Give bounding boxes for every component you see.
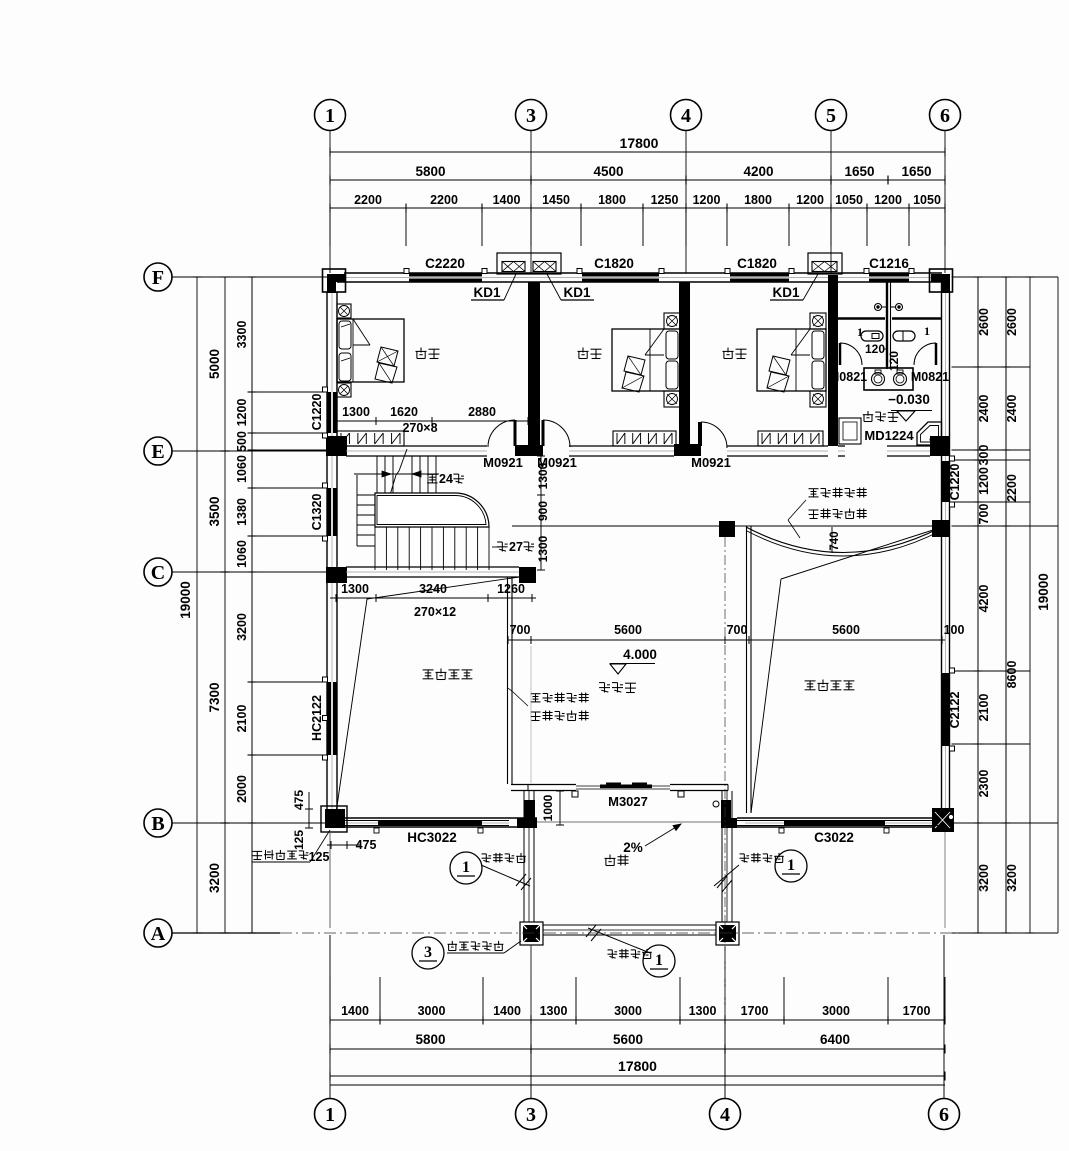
KD1 box left bbox=[497, 253, 561, 274]
room label bedroom 1 bbox=[420, 348, 422, 353]
void diagonal living bbox=[751, 530, 933, 813]
dim 475 horizontal bbox=[327, 844, 360, 846]
svg-text:6: 6 bbox=[939, 1104, 949, 1126]
bed 2 bbox=[612, 329, 680, 391]
svg-text:2200: 2200 bbox=[430, 193, 458, 207]
grid circle 3 bottom bbox=[516, 1099, 547, 1130]
svg-text:C1820: C1820 bbox=[594, 256, 634, 271]
dim stairs 1300/900/1300 bbox=[540, 456, 542, 570]
svg-text:475: 475 bbox=[356, 838, 377, 852]
bed 1 cushion b bbox=[375, 363, 397, 383]
label corner column bbox=[253, 850, 263, 852]
room label bedroom 2 bbox=[582, 348, 584, 353]
void slab edge line bbox=[512, 525, 941, 527]
svg-text:4200: 4200 bbox=[977, 585, 991, 613]
svg-text:1: 1 bbox=[325, 105, 335, 127]
svg-text:1650: 1650 bbox=[844, 164, 874, 179]
right wall outer line bbox=[949, 292, 951, 808]
label living void bbox=[805, 680, 816, 682]
svg-text:2880: 2880 bbox=[468, 405, 496, 419]
label dining void bbox=[423, 669, 434, 671]
door MD1224 bbox=[839, 418, 861, 444]
B wall center line bbox=[345, 822, 509, 824]
svg-text:3: 3 bbox=[526, 105, 536, 127]
svg-text:3200: 3200 bbox=[207, 863, 222, 893]
callout 1 left bbox=[450, 852, 482, 884]
svg-text:8600: 8600 bbox=[1005, 661, 1019, 689]
grid circle 1 top bbox=[315, 100, 346, 131]
svg-text:C1220: C1220 bbox=[310, 394, 324, 431]
window C1820 bed2 bbox=[582, 274, 659, 277]
dim 1000 balcony bbox=[559, 791, 561, 825]
svg-text:27: 27 bbox=[509, 540, 523, 554]
svg-text:17800: 17800 bbox=[620, 135, 659, 151]
right tick line bbox=[952, 501, 1031, 503]
railing note right bbox=[809, 488, 819, 490]
dim 740 bbox=[831, 527, 833, 553]
E wall segment bath right bbox=[887, 445, 930, 447]
svg-text:4: 4 bbox=[720, 1104, 730, 1126]
window C3022 bbox=[737, 820, 941, 822]
grid line 3 stem lower bbox=[530, 945, 532, 1015]
dim 475 vertical bbox=[308, 792, 310, 828]
column fill E left of door3 bbox=[674, 444, 701, 456]
right wall inner line bbox=[941, 282, 943, 818]
svg-text:C3022: C3022 bbox=[814, 830, 854, 845]
bottom dim row 5800/5600/6400 bbox=[330, 1048, 945, 1050]
grid circle 6 bottom bbox=[929, 1099, 960, 1130]
svg-text:1800: 1800 bbox=[598, 193, 626, 207]
svg-text:1700: 1700 bbox=[903, 1004, 931, 1018]
svg-text:1380: 1380 bbox=[235, 498, 249, 526]
grid circle E bbox=[144, 437, 172, 465]
svg-text:C: C bbox=[151, 562, 165, 584]
svg-text:4.000: 4.000 bbox=[623, 647, 657, 662]
grid circle 1 bottom bbox=[315, 1099, 346, 1130]
KD1 box right bbox=[808, 253, 842, 274]
door M0921 bed3 bbox=[698, 422, 702, 446]
svg-text:3000: 3000 bbox=[614, 1004, 642, 1018]
svg-text:1050: 1050 bbox=[913, 193, 941, 207]
right tick line bbox=[952, 449, 1031, 451]
top wall center line bbox=[346, 277, 940, 279]
top wall inner line bbox=[337, 281, 942, 283]
void diagonal dining bbox=[336, 577, 519, 813]
callout 1 right bbox=[775, 850, 807, 882]
wardrobe bed1 bbox=[337, 431, 404, 446]
svg-text:C1220: C1220 bbox=[948, 464, 962, 501]
svg-text:1: 1 bbox=[857, 325, 863, 339]
void railing dining bbox=[507, 577, 509, 784]
svg-text:3: 3 bbox=[526, 1104, 536, 1126]
grid circle B bbox=[144, 809, 172, 837]
B wall outer line bbox=[327, 826, 537, 828]
svg-text:2400: 2400 bbox=[977, 395, 991, 423]
svg-text:500: 500 bbox=[235, 431, 249, 452]
svg-text:1200: 1200 bbox=[796, 193, 824, 207]
B wall inner line bbox=[327, 817, 537, 819]
svg-text:C1216: C1216 bbox=[869, 256, 909, 271]
right tick line bbox=[952, 366, 1031, 368]
svg-text:C2122: C2122 bbox=[948, 692, 962, 729]
window C2122 right bbox=[942, 673, 946, 746]
window HC3022 bbox=[345, 820, 509, 822]
svg-text:F: F bbox=[152, 267, 164, 289]
window C1320 left bbox=[328, 488, 332, 536]
stair lower flight treads bbox=[374, 527, 376, 570]
svg-text:1620: 1620 bbox=[390, 405, 418, 419]
basin left bbox=[872, 373, 885, 386]
svg-text:1: 1 bbox=[787, 857, 795, 874]
railing note middle bbox=[531, 693, 541, 695]
corner column B-right decorative bbox=[932, 808, 954, 832]
bottom dim 17800 bbox=[330, 1075, 945, 1077]
bath hook right bbox=[896, 304, 903, 311]
column curve-left bbox=[719, 521, 735, 537]
bed 1 bbox=[337, 319, 404, 382]
column fill C-left bbox=[326, 567, 347, 583]
svg-text:1400: 1400 bbox=[493, 1004, 521, 1018]
room label bedroom 3 bbox=[727, 348, 729, 353]
svg-text:3000: 3000 bbox=[418, 1004, 446, 1018]
svg-text:MD1224: MD1224 bbox=[864, 428, 914, 443]
door M0821 left bbox=[840, 343, 862, 365]
svg-text:B: B bbox=[151, 813, 164, 835]
svg-text:475: 475 bbox=[292, 790, 306, 810]
svg-text:1200: 1200 bbox=[977, 467, 991, 495]
svg-text:1400: 1400 bbox=[493, 193, 521, 207]
svg-text:3200: 3200 bbox=[235, 613, 249, 641]
svg-text:125: 125 bbox=[292, 830, 306, 850]
svg-text:3200: 3200 bbox=[1005, 864, 1019, 892]
svg-text:5: 5 bbox=[826, 105, 836, 127]
column balcony junction left bbox=[517, 818, 537, 828]
svg-text:5800: 5800 bbox=[415, 1032, 445, 1047]
stair up arrow bbox=[354, 473, 439, 475]
svg-text:4200: 4200 bbox=[743, 164, 773, 179]
wall bed3-bath divider bbox=[828, 275, 838, 446]
dim living 700/5600/700/5600 bbox=[508, 639, 945, 641]
balcony right railing bbox=[721, 791, 723, 922]
grid stem bottom 3 bbox=[530, 946, 532, 1098]
right tick line bbox=[952, 525, 1059, 527]
left wall inner line bbox=[336, 292, 338, 818]
svg-text:1260: 1260 bbox=[497, 582, 525, 596]
balcony top band bbox=[511, 784, 576, 786]
balcony bottom railing bbox=[543, 924, 716, 926]
bath stall front wall bbox=[838, 317, 885, 320]
svg-text:1: 1 bbox=[924, 324, 930, 338]
svg-text:1000: 1000 bbox=[541, 794, 555, 821]
svg-text:KD1: KD1 bbox=[772, 285, 799, 300]
svg-text:125: 125 bbox=[309, 850, 330, 864]
door M0921 bed1 bbox=[514, 420, 517, 446]
right tick line bbox=[952, 822, 1059, 824]
bed 1 nightstand bottom bbox=[337, 383, 351, 397]
window C1820 bed3 bbox=[730, 274, 789, 277]
right tick line bbox=[952, 670, 1031, 672]
grid circle 4 bottom bbox=[710, 1099, 741, 1130]
svg-text:1200: 1200 bbox=[693, 193, 721, 207]
svg-text:KD1: KD1 bbox=[473, 285, 500, 300]
column fill E right wall bbox=[930, 436, 950, 456]
corner column B-left bbox=[321, 806, 347, 832]
svg-text:1200: 1200 bbox=[874, 193, 902, 207]
svg-text:900: 900 bbox=[536, 501, 550, 521]
grid circle 4 top bbox=[671, 100, 702, 131]
left wall outer line bbox=[326, 292, 328, 809]
svg-text:5000: 5000 bbox=[207, 349, 222, 379]
stair upper flight treads bbox=[376, 456, 378, 493]
svg-text:700: 700 bbox=[727, 623, 748, 637]
svg-text:2600: 2600 bbox=[1005, 308, 1019, 336]
right chain 19000 bbox=[1029, 277, 1031, 933]
wall bed2-bed3 divider bbox=[679, 282, 690, 446]
svg-text:A: A bbox=[151, 923, 166, 945]
svg-text:7300: 7300 bbox=[207, 682, 222, 712]
dim row 5800/4500/4200/1650/1650 bbox=[330, 179, 945, 181]
svg-text:2200: 2200 bbox=[1005, 474, 1019, 502]
door M0821 right bbox=[914, 343, 936, 365]
balcony post right bbox=[716, 922, 739, 945]
grid line stem top bbox=[329, 131, 331, 273]
squat toilet left bbox=[861, 331, 883, 341]
svg-text:2100: 2100 bbox=[977, 694, 991, 722]
E wall segment bed2 bbox=[569, 445, 674, 447]
svg-text:1: 1 bbox=[325, 1104, 335, 1126]
svg-text:1200: 1200 bbox=[235, 399, 249, 427]
svg-text:1300: 1300 bbox=[536, 535, 550, 562]
grid stem bottom 1 bbox=[329, 935, 331, 1098]
grid line stem top bbox=[830, 131, 832, 273]
bed 1 blanket line bbox=[352, 319, 354, 382]
left chain small bbox=[251, 277, 253, 823]
svg-text:740: 740 bbox=[829, 531, 841, 550]
grid circle A bbox=[144, 919, 172, 947]
svg-text:270×8: 270×8 bbox=[402, 421, 437, 435]
svg-text:700: 700 bbox=[510, 623, 531, 637]
svg-text:5600: 5600 bbox=[832, 623, 860, 637]
bath hook left bbox=[875, 304, 882, 311]
svg-text:1300: 1300 bbox=[341, 582, 369, 596]
right tick line bbox=[952, 743, 1031, 745]
stair side flight bbox=[356, 475, 358, 546]
terrace outline bbox=[329, 832, 331, 928]
svg-text:HC2122: HC2122 bbox=[310, 695, 324, 741]
balustrade curve bbox=[746, 527, 942, 553]
balcony left railing bbox=[523, 791, 525, 922]
dim bed1 1300/1620/2880 bbox=[337, 420, 528, 422]
grid 3 faint line bbox=[530, 646, 532, 783]
svg-text:2100: 2100 bbox=[235, 705, 249, 733]
window C1216 bbox=[869, 274, 909, 277]
svg-text:100: 100 bbox=[944, 623, 965, 637]
bed 1 fold bbox=[353, 319, 370, 345]
svg-text:1: 1 bbox=[655, 952, 663, 969]
svg-text:M0921: M0921 bbox=[483, 455, 523, 470]
svg-text:1: 1 bbox=[462, 859, 470, 876]
stair label down27 bbox=[497, 541, 502, 543]
svg-text:5600: 5600 bbox=[613, 1032, 643, 1047]
column curve-right bbox=[932, 520, 950, 537]
svg-text:1060: 1060 bbox=[235, 540, 249, 568]
grid circle F bbox=[144, 263, 172, 291]
left wall center line bbox=[331, 292, 333, 818]
A row dashed line bbox=[280, 932, 958, 934]
svg-text:2%: 2% bbox=[623, 840, 643, 855]
grid line stem top bbox=[944, 131, 946, 273]
svg-text:M0821: M0821 bbox=[829, 370, 867, 384]
svg-text:2300: 2300 bbox=[977, 770, 991, 798]
right wall center line bbox=[945, 292, 947, 818]
squat toilet right bbox=[893, 331, 915, 341]
svg-text:C1820: C1820 bbox=[737, 256, 777, 271]
left chain 5000/3500/7300/3200 bbox=[224, 277, 226, 933]
washbasin counter bbox=[864, 368, 913, 390]
left chain 19000 bbox=[196, 277, 198, 933]
svg-text:17800: 17800 bbox=[618, 1058, 657, 1074]
svg-text:1800: 1800 bbox=[744, 193, 772, 207]
grid line stem top bbox=[685, 131, 687, 273]
svg-text:19000: 19000 bbox=[1036, 573, 1051, 611]
column fill E between doors1-2 bbox=[515, 445, 543, 456]
svg-text:700: 700 bbox=[977, 504, 991, 525]
svg-text:3500: 3500 bbox=[207, 496, 222, 526]
room label bathroom bbox=[867, 411, 869, 416]
bed 1 nightstand top bbox=[337, 304, 351, 318]
window C1220 left bbox=[328, 392, 332, 433]
svg-text:300: 300 bbox=[977, 445, 991, 466]
label balcony bbox=[609, 855, 611, 860]
grid stem bottom 6 bbox=[943, 935, 945, 1098]
wardrobe bed3 bbox=[758, 431, 823, 446]
svg-text:1250: 1250 bbox=[651, 193, 679, 207]
svg-text:4: 4 bbox=[681, 105, 691, 127]
svg-text:3: 3 bbox=[424, 944, 432, 961]
svg-text:2200: 2200 bbox=[354, 193, 382, 207]
window C1220 right bbox=[942, 461, 946, 502]
svg-text:1300: 1300 bbox=[342, 405, 370, 419]
svg-text:1400: 1400 bbox=[341, 1004, 369, 1018]
svg-text:KD1: KD1 bbox=[563, 285, 590, 300]
grid line 4b dashdot bbox=[724, 537, 726, 1015]
svg-text:2600: 2600 bbox=[977, 308, 991, 336]
stair break line bbox=[399, 449, 407, 471]
svg-text:1300: 1300 bbox=[540, 1004, 568, 1018]
svg-text:24: 24 bbox=[439, 472, 453, 486]
C wall bbox=[346, 566, 519, 568]
svg-text:6: 6 bbox=[940, 105, 950, 127]
bottom border line bbox=[330, 1084, 945, 1086]
label living room bbox=[599, 682, 604, 684]
svg-text:E: E bbox=[151, 441, 164, 463]
svg-text:4500: 4500 bbox=[593, 164, 623, 179]
svg-text:−0.030: −0.030 bbox=[888, 392, 930, 407]
bed 1 pillows bbox=[339, 321, 351, 349]
bath stall divider bbox=[886, 282, 888, 369]
svg-text:6400: 6400 bbox=[820, 1032, 850, 1047]
svg-text:1050: 1050 bbox=[835, 193, 863, 207]
grid line stem top bbox=[530, 131, 532, 273]
balcony grid thin line bbox=[537, 821, 721, 823]
balcony drain circle bbox=[713, 801, 719, 807]
svg-text:HC3022: HC3022 bbox=[407, 830, 457, 845]
svg-text:19000: 19000 bbox=[178, 581, 193, 619]
svg-text:5600: 5600 bbox=[614, 623, 642, 637]
dim dining 1300/3240/1260 bbox=[330, 597, 536, 599]
door M0921 bed2 bbox=[542, 420, 545, 446]
column fill C-right bbox=[519, 567, 536, 583]
grid circle C bbox=[144, 558, 172, 586]
callout 1 bottom bbox=[643, 945, 675, 977]
svg-text:M0921: M0921 bbox=[691, 455, 731, 470]
svg-text:3300: 3300 bbox=[235, 321, 249, 349]
corner column top-left bbox=[323, 269, 346, 292]
bed 1 cushion a bbox=[377, 347, 398, 366]
bottom dim row small bbox=[330, 1019, 945, 1021]
grid circle 5 top bbox=[816, 100, 847, 131]
grid circle 3 top bbox=[516, 100, 547, 131]
grid stem bottom 4 bbox=[724, 946, 726, 1098]
svg-text:120: 120 bbox=[865, 342, 885, 356]
right chain middle bbox=[1005, 277, 1007, 933]
svg-text:1700: 1700 bbox=[741, 1004, 769, 1018]
bed 3 bbox=[757, 329, 826, 391]
dim row small top bbox=[330, 207, 945, 209]
svg-text:1300: 1300 bbox=[536, 462, 550, 489]
void railing living bbox=[746, 526, 748, 813]
window C2220 bbox=[409, 274, 482, 277]
wardrobe bed2 bbox=[613, 431, 676, 446]
callout 3 bottom bbox=[412, 937, 444, 969]
column fill E-left bbox=[326, 436, 347, 456]
stair label up24 bbox=[427, 473, 438, 475]
corner column top-right bbox=[930, 269, 953, 292]
right tick line bbox=[952, 276, 1059, 278]
svg-text:M0821: M0821 bbox=[911, 370, 949, 384]
top wall outer line bbox=[344, 272, 942, 274]
svg-text:3000: 3000 bbox=[822, 1004, 850, 1018]
svg-text:1060: 1060 bbox=[235, 455, 249, 483]
svg-text:3200: 3200 bbox=[977, 864, 991, 892]
basin right bbox=[894, 373, 907, 386]
dim line 17800 top bbox=[330, 151, 945, 153]
E wall segment bed1 bbox=[346, 445, 487, 447]
E wall segment bed3 bbox=[727, 445, 828, 447]
svg-text:270×12: 270×12 bbox=[414, 605, 456, 619]
shower tray bbox=[917, 422, 942, 445]
grid circle 6 top bbox=[930, 100, 961, 131]
svg-text:2000: 2000 bbox=[235, 775, 249, 803]
svg-text:5800: 5800 bbox=[415, 164, 445, 179]
svg-text:1650: 1650 bbox=[901, 164, 931, 179]
svg-text:M3027: M3027 bbox=[608, 794, 648, 809]
right tick line bbox=[952, 932, 1059, 934]
column balcony junction right bbox=[721, 818, 737, 828]
svg-text:C1320: C1320 bbox=[310, 494, 324, 531]
svg-text:C2220: C2220 bbox=[425, 256, 465, 271]
balcony post left bbox=[520, 922, 543, 945]
right tick line bbox=[952, 459, 1031, 461]
right chain inner bbox=[977, 277, 979, 933]
window HC2122 left bbox=[328, 682, 332, 755]
wall bed1-bed2 divider bbox=[528, 282, 540, 446]
E wall segment bath left bbox=[838, 445, 845, 447]
svg-text:2400: 2400 bbox=[1005, 395, 1019, 423]
svg-text:1300: 1300 bbox=[689, 1004, 717, 1018]
svg-text:1450: 1450 bbox=[542, 193, 570, 207]
stair landing bbox=[375, 493, 489, 527]
